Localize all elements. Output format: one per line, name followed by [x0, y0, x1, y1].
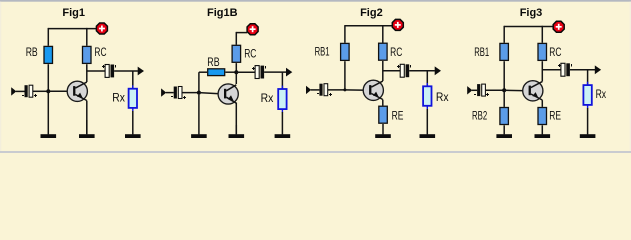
- ground Rx Fig3: [587, 108, 589, 134]
- resistor Rx Fig2: [426, 83, 428, 109]
- power supply +V Fig1B: [247, 24, 258, 35]
- svg-text:Rx: Rx: [261, 91, 274, 105]
- wire Vcc rail Fig1: [48, 28, 96, 30]
- input terminal arrow Fig1: [11, 87, 16, 95]
- wire RB2 top Fig3: [503, 90, 505, 107]
- resistor Rx Fig3: [587, 82, 589, 109]
- wire emitter to RE Fig2: [382, 100, 384, 106]
- ground Rx Fig2: [426, 109, 428, 134]
- wire RB1 top Fig2: [344, 25, 346, 43]
- svg-text:RE: RE: [392, 109, 404, 123]
- svg-text:RB2: RB2: [472, 109, 487, 123]
- wire C1 to base node Fig2: [328, 89, 345, 91]
- wire Vcc rail Fig3: [504, 26, 553, 28]
- wire emitter down Fig1: [86, 101, 88, 134]
- input terminal arrow Fig1B: [161, 88, 166, 96]
- wire RC bottom to collector node Fig1B: [235, 63, 237, 84]
- input terminal arrow Fig2: [306, 86, 311, 94]
- wire Rx drop Fig2: [426, 71, 428, 86]
- svg-text:Fig1B: Fig1B: [207, 7, 238, 19]
- input terminal arrow Fig3: [467, 86, 472, 94]
- svg-text:RB1: RB1: [474, 45, 489, 59]
- resistor RE Fig3: [538, 108, 547, 125]
- wire input to C1 Fig2: [311, 89, 320, 91]
- transistor Q1 Fig3: [523, 81, 543, 101]
- resistor RB feedback Fig1B: [208, 69, 225, 76]
- svg-text:RE: RE: [549, 109, 561, 123]
- output terminal arrow Fig2: [435, 66, 441, 75]
- wire RB1 top Fig3: [503, 26, 505, 43]
- capacitor C2 output Fig1: [105, 65, 109, 78]
- svg-text:RB1: RB1: [315, 45, 330, 59]
- wire emitter down Fig1B: [235, 103, 237, 134]
- wire RB left corner Fig1B: [199, 71, 207, 73]
- output terminal arrow Fig3: [595, 65, 601, 74]
- wire C1 to base node Fig3: [485, 89, 504, 91]
- capacitor C1 input Fig3: [477, 84, 480, 96]
- svg-text:RB: RB: [26, 45, 38, 59]
- ground RE Fig2: [382, 124, 384, 134]
- wire RB bottom to base node Fig1: [47, 64, 49, 91]
- power supply +V Fig1: [96, 23, 107, 34]
- resistor Rx Fig1: [132, 85, 134, 111]
- wire RB1 bottom to base node Fig2: [344, 61, 346, 90]
- wire Rx drop Fig3: [587, 70, 589, 85]
- resistor RB2 Fig3: [500, 108, 509, 125]
- resistor Rx Fig1B: [281, 86, 283, 113]
- power supply +V Fig3: [553, 21, 564, 32]
- output terminal arrow Fig1B: [286, 68, 292, 77]
- ground base node Fig1B: [198, 95, 200, 135]
- svg-text:RC: RC: [390, 45, 402, 59]
- resistor RB1 Fig2: [341, 43, 350, 60]
- wire base Fig2: [345, 89, 368, 91]
- transistor Q1 Fig1: [67, 81, 87, 101]
- wire emitter to RE Fig3: [541, 100, 543, 107]
- resistor RB1 Fig3: [500, 43, 509, 60]
- wire Rx drop Fig1: [132, 71, 134, 88]
- capacitor C1 input Fig1: [25, 85, 28, 97]
- wire C2 to output arrow Fig1: [114, 70, 138, 72]
- wire RB top Fig1: [47, 28, 49, 46]
- resistor RE Fig2: [379, 106, 388, 123]
- svg-text:RC: RC: [94, 45, 106, 59]
- wire base Fig1: [48, 90, 73, 92]
- node base junction Fig1B: [197, 91, 201, 95]
- svg-text:RC: RC: [244, 47, 256, 61]
- wire RC top Fig1B: [235, 32, 237, 45]
- resistor RC Fig3: [538, 43, 547, 60]
- ground base node Fig1: [47, 93, 49, 134]
- svg-text:Fig3: Fig3: [520, 7, 543, 19]
- wire RC top Fig2: [382, 25, 384, 42]
- wire Vcc stub Fig1B: [236, 32, 247, 34]
- wire collector node to C2 Fig1B: [236, 71, 255, 73]
- wire input to C1 Fig3: [472, 89, 477, 91]
- power supply +V Fig2: [392, 19, 403, 30]
- wire input to C1 Fig1B: [166, 92, 174, 94]
- capacitor C1 input Fig2: [319, 84, 322, 96]
- resistor RC Fig1: [83, 46, 92, 63]
- wire RC top Fig3: [541, 26, 543, 43]
- node base junction Fig3: [502, 88, 506, 92]
- wire collector node to C2 Fig2: [383, 70, 401, 72]
- ground RB2 Fig3: [503, 125, 505, 134]
- wire RC bottom to collector node Fig3: [541, 61, 543, 81]
- wire C2 to output arrow Fig1B: [264, 71, 286, 73]
- wire RC top Fig1: [86, 28, 88, 46]
- svg-text:Fig1: Fig1: [62, 7, 85, 19]
- wire Rx drop Fig1B: [281, 72, 283, 89]
- wire collector to output Fig1: [87, 70, 106, 72]
- ground Rx Fig1B: [281, 112, 283, 134]
- wire C1 to base node Fig1: [33, 90, 49, 92]
- node base junction Fig2: [343, 88, 346, 91]
- ground emitter Fig1: [86, 120, 88, 134]
- svg-text:Fig2: Fig2: [360, 7, 383, 19]
- wire collector node to C2 Fig3: [542, 69, 561, 71]
- svg-text:RC: RC: [549, 45, 561, 59]
- wire RB right to collector node Fig1B: [225, 71, 236, 73]
- transistor Q1 Fig2: [363, 80, 383, 100]
- wire RC bottom to collector Fig1: [86, 64, 88, 82]
- wire RC bottom to collector node Fig2: [382, 61, 384, 81]
- resistor RC Fig1B: [232, 45, 241, 62]
- ground emitter Fig1B: [235, 125, 237, 134]
- capacitor C2 output Fig2: [400, 64, 404, 77]
- wire base Fig1B: [199, 93, 224, 94]
- svg-text:RB: RB: [207, 55, 219, 69]
- resistor RB Fig1: [44, 46, 53, 63]
- ground RE Fig3: [541, 125, 543, 134]
- node collector junction Fig1B: [234, 70, 238, 74]
- ground Rx Fig1: [132, 111, 134, 134]
- svg-text:Rx: Rx: [112, 91, 125, 105]
- wire C1 to base node Fig1B: [182, 92, 199, 94]
- wire C2 to output arrow Fig2: [409, 70, 435, 72]
- svg-text:Rx: Rx: [436, 90, 449, 104]
- transistor Q1 Fig1B: [218, 84, 238, 104]
- wire Vcc rail Fig2: [345, 25, 393, 27]
- wire RB1 bottom to base node Fig3: [503, 61, 505, 90]
- capacitor C2 output Fig3: [561, 63, 565, 76]
- node base junction Fig1: [46, 89, 50, 93]
- resistor RC Fig2: [379, 43, 388, 60]
- wire base Fig3: [504, 89, 528, 92]
- wire C2 to output arrow Fig3: [570, 69, 595, 71]
- wire input to C1 Fig1: [16, 90, 25, 92]
- output terminal arrow Fig1: [138, 67, 144, 76]
- capacitor C2 output Fig1B: [255, 66, 259, 79]
- svg-text:Rx: Rx: [596, 87, 607, 101]
- capacitor C1 input Fig1B: [174, 87, 177, 99]
